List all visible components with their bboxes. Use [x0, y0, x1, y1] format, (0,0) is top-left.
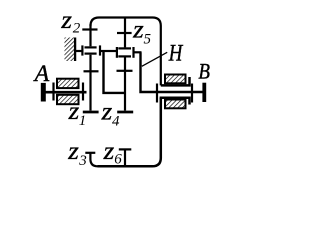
right disk bottom rim bar [117, 111, 133, 114]
svg-text:2: 2 [73, 20, 81, 36]
fixed wall hatching (frame) [65, 38, 75, 62]
gear z1 upper hatched block [57, 79, 79, 88]
carrier H link (L-shape) [104, 51, 125, 93]
wire upper axis seg3 [135, 51, 142, 53]
gear z1 lower hatched block [57, 95, 79, 104]
svg-text:3: 3 [78, 153, 87, 169]
svg-text:z: z [67, 138, 79, 165]
frame bottom right vertical + bottom bar [98, 98, 161, 167]
gear z2 rim top bar [85, 46, 97, 48]
bearing tick on left disk [82, 28, 97, 30]
gear z4-z5 disk vertical (upper) [124, 18, 126, 48]
gear z5 rim bottom bar [118, 55, 131, 57]
svg-text:5: 5 [144, 31, 152, 47]
gear z3 stem hook [90, 154, 97, 167]
gear z2-z1 disk vertical (lower) [89, 55, 91, 111]
gear z3 rim bar [85, 152, 95, 154]
gear B right tick [191, 84, 193, 103]
gear z1 left tick [52, 83, 54, 101]
gear z2-z1 disk vertical (upper) [89, 24, 91, 46]
svg-text:B: B [198, 58, 210, 83]
gear z5 mesh left tick [116, 47, 118, 58]
fixed wall line [74, 38, 76, 62]
gear z6 stem [124, 150, 126, 165]
shaft B end bar [202, 83, 206, 102]
svg-text:z: z [60, 7, 72, 34]
bearing tick on right disk top [117, 32, 132, 34]
svg-text:6: 6 [114, 151, 122, 167]
svg-text:H: H [168, 41, 184, 66]
gear on B upper hatched block [165, 75, 186, 84]
svg-text:z: z [103, 138, 115, 165]
svg-text:4: 4 [112, 113, 120, 129]
wire upper axis seg1 [75, 50, 81, 52]
gear z2 rim bottom bar [85, 52, 97, 54]
svg-text:z: z [132, 17, 144, 44]
shaft A end bar [41, 83, 46, 102]
gear z1 right tick [82, 83, 84, 101]
wire shaft A [44, 91, 87, 94]
carrier frame top (rounded) [91, 18, 161, 86]
ring gear channel bottom (on B) [160, 98, 190, 105]
gear z4-z5 disk vertical (lower) [124, 58, 126, 111]
gear z5 rim top bar [118, 47, 131, 49]
ring gear U-channel top (on B) [161, 77, 190, 85]
H leader line [142, 52, 167, 66]
gear on B lower hatched block [165, 100, 186, 109]
bearing tick on right disk mid [117, 70, 133, 72]
carrier H right arm [141, 52, 203, 92]
svg-text:z: z [101, 99, 113, 126]
gear z5 mesh right tick [132, 47, 134, 58]
wire upper axis seg2 [101, 50, 116, 52]
gear z2 mesh left tick [81, 45, 83, 55]
gear B left tick [156, 84, 158, 103]
svg-text:z: z [68, 98, 80, 125]
bearing tick mid left disk [84, 70, 99, 72]
svg-text:1: 1 [79, 113, 87, 129]
gear z2 mesh right tick [99, 45, 101, 55]
gear z6 rim bar [119, 148, 132, 150]
left disk bottom rim bar [83, 111, 99, 114]
